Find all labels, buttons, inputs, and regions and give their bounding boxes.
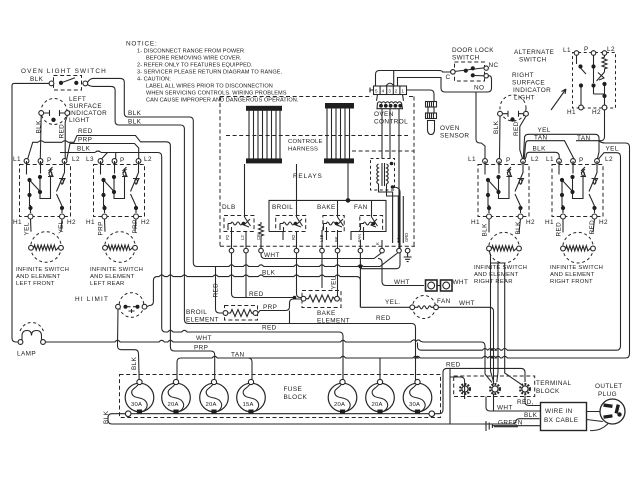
svg-text:HARNESS: HARNESS: [288, 147, 318, 153]
svg-text:WHT: WHT: [497, 405, 513, 412]
svg-text:BLOCK: BLOCK: [536, 388, 560, 395]
svg-text:L1: L1: [468, 156, 476, 163]
svg-text:BX CABLE: BX CABLE: [544, 417, 578, 424]
svg-text:BLK: BLK: [30, 76, 44, 83]
svg-text:YEL: YEL: [24, 222, 31, 235]
svg-text:P: P: [47, 157, 52, 164]
svg-text:P: P: [120, 157, 125, 164]
bus RED left (from L1 left-front across): [28, 136, 215, 383]
ribbon cable A: [246, 106, 282, 164]
svg-text:FUSE: FUSE: [284, 386, 303, 393]
svg-text:OUTLET: OUTLET: [595, 383, 623, 390]
svg-text:TAN: TAN: [231, 352, 245, 359]
svg-text:WIRE IN: WIRE IN: [545, 408, 573, 415]
svg-text:HI LIMIT: HI LIMIT: [75, 296, 109, 303]
svg-text:TERMINAL: TERMINAL: [536, 380, 572, 387]
svg-text:H1: H1: [545, 219, 554, 226]
svg-text:AND ELEMENT: AND ELEMENT: [474, 272, 519, 278]
svg-text:NC: NC: [489, 62, 499, 69]
svg-text:LAMP: LAMP: [17, 351, 36, 358]
svg-text:C: C: [446, 74, 451, 81]
relay FAN dashed box: [360, 216, 383, 232]
svg-text:BLOCK: BLOCK: [284, 394, 308, 401]
wires bake relay outputs down to element: [322, 253, 360, 307]
svg-text:K: K: [375, 242, 380, 245]
relay BAKE dashed box: [323, 216, 344, 232]
svg-text:FAN: FAN: [437, 298, 451, 305]
wire H2 to element right front, RED: [593, 219, 595, 232]
svg-text:4- CAUTION:: 4- CAUTION:: [137, 77, 171, 83]
oven light switch: [49, 76, 88, 91]
wire transformer right to yel junction: [360, 187, 400, 269]
svg-text:YEL: YEL: [606, 145, 619, 152]
relay coil resistor DLB: [259, 222, 264, 240]
svg-text:L2: L2: [240, 235, 245, 240]
control harness dashed box left edge: [220, 97, 415, 247]
svg-text:L2: L2: [72, 156, 80, 163]
svg-text:RED: RED: [78, 128, 93, 135]
wire RED fuse bus to terminal block: [435, 368, 525, 413]
wire BLK from indicator left terminal to P of left front switch: [39, 116, 42, 160]
wire door lock NO loop to oven control: [398, 76, 492, 92]
ground symbol green wire: [486, 421, 492, 431]
relay BROIL: [280, 164, 303, 232]
svg-text:WHT: WHT: [394, 279, 410, 286]
svg-text:L1: L1: [546, 156, 554, 163]
text RIGHT SURFACE INDICATOR LIGHT: [512, 72, 551, 102]
svg-text:5: 5: [375, 89, 378, 94]
element right rear: [487, 232, 522, 263]
svg-text:2: 2: [395, 89, 398, 94]
svg-text:H2: H2: [599, 219, 608, 226]
diagonal from L3 to BLK bus: [95, 151, 108, 160]
svg-text:LIGHT: LIGHT: [69, 117, 90, 124]
svg-text:PRP: PRP: [132, 219, 139, 233]
svg-text:P: P: [579, 157, 584, 164]
wire from junction up: [347, 164, 349, 201]
wire WHT fan to terminal block: [438, 307, 493, 411]
svg-text:INFINITE SWITCH: INFINITE SWITCH: [550, 265, 603, 271]
svg-text:YEL: YEL: [331, 276, 338, 289]
svg-text:BLK: BLK: [533, 145, 547, 152]
svg-text:DOOR LOCK: DOOR LOCK: [452, 47, 494, 54]
wire to right switches L1: [476, 92, 485, 159]
lamp: [18, 323, 45, 345]
svg-text:YEL: YEL: [58, 220, 65, 233]
wire WHT bus from lamp to terminal block: [45, 340, 485, 374]
relay module dashed top edge: [226, 97, 414, 247]
terminal block screw 2: [490, 384, 500, 394]
svg-text:YEL.: YEL.: [385, 299, 400, 306]
svg-text:CONTROLE: CONTROLE: [288, 139, 323, 145]
svg-text:P: P: [584, 46, 589, 53]
svg-text:H1: H1: [567, 109, 576, 116]
svg-text:P: P: [506, 157, 511, 164]
svg-text:BLK: BLK: [36, 120, 43, 134]
fuse 6 20A: [366, 379, 395, 414]
svg-text:RIGHT: RIGHT: [512, 72, 534, 79]
svg-text:PRP: PRP: [194, 345, 208, 352]
wire WHT to BX box: [486, 397, 540, 412]
svg-text:SWITCH: SWITCH: [519, 57, 547, 64]
element left rear: [103, 232, 138, 263]
svg-text:BLK: BLK: [128, 110, 142, 117]
infinite switch left rear: [94, 159, 145, 219]
svg-text:INFINITE SWITCH: INFINITE SWITCH: [16, 267, 69, 273]
wire H2 to element left front, YEL: [61, 219, 62, 232]
junction bake-red vertical: [289, 311, 291, 324]
svg-text:AND ELEMENT: AND ELEMENT: [16, 274, 61, 280]
wire RED screw3 to BX box: [525, 395, 540, 405]
svg-text:WHT: WHT: [196, 335, 212, 342]
svg-text:LABEL ALL WIRES PRIOR TO DISCO: LABEL ALL WIRES PRIOR TO DISCONNECTION: [146, 84, 273, 90]
svg-text:WHT: WHT: [459, 300, 475, 307]
svg-text:CAN CAUSE IMPROPER AND DANGERO: CAN CAUSE IMPROPER AND DANGEROUS OPERATI…: [146, 98, 299, 104]
wire BLK hi-limit left to fuse 1: [118, 309, 140, 381]
open circle right of fuse bus: [429, 411, 435, 417]
svg-text:L2: L2: [531, 156, 539, 163]
bus BLK left (to left-rear P and down at 161.7): [60, 153, 343, 383]
svg-text:BROIL: BROIL: [272, 204, 293, 211]
wires oven control plug down: [382, 109, 399, 249]
svg-text:OVEN LIGHT SWITCH: OVEN LIGHT SWITCH: [21, 68, 107, 75]
notice text block: [126, 41, 299, 104]
svg-text:30A: 30A: [131, 402, 142, 408]
wire oven control to door lock: [376, 71, 451, 87]
svg-text:RED: RED: [589, 220, 596, 235]
svg-text:NO: NO: [474, 85, 484, 92]
WHT receptacle box 2: [437, 280, 452, 291]
svg-text:PRP: PRP: [263, 304, 277, 311]
fuse 2 20A: [162, 379, 191, 414]
svg-text:BLK: BLK: [131, 356, 138, 370]
svg-text:30A: 30A: [409, 402, 420, 408]
svg-text:SURFACE: SURFACE: [69, 103, 102, 110]
fan motor: [410, 296, 439, 319]
svg-text:CB: CB: [256, 234, 261, 240]
svg-text:GRD: GRD: [404, 233, 409, 242]
infinite switch left front: [20, 159, 71, 219]
wire TAN outer right border: [177, 141, 630, 382]
element right front: [561, 232, 596, 263]
oven control connector strip: [370, 83, 407, 101]
wire bus 358 drop to fuse 6: [379, 358, 381, 382]
wire RED broil left from bus: [216, 267, 224, 314]
svg-text:RED: RED: [556, 222, 563, 237]
wires BX box to plug: [587, 412, 609, 431]
svg-text:15A: 15A: [243, 402, 254, 408]
svg-text:RIGHT REAR: RIGHT REAR: [474, 279, 513, 285]
svg-text:L3: L3: [86, 156, 94, 163]
svg-text:BLK: BLK: [524, 412, 538, 419]
svg-text:PRP: PRP: [78, 137, 92, 144]
svg-text:BLK: BLK: [77, 146, 91, 153]
wire H2 to element left rear, PRP: [135, 219, 136, 232]
svg-text:20A: 20A: [168, 402, 179, 408]
svg-text:BLK: BLK: [128, 119, 142, 126]
svg-text:BK: BK: [334, 236, 339, 242]
oven control plug connector: [377, 102, 403, 109]
relay BROIL dashed box: [276, 216, 306, 232]
wires transformer secondary down: [379, 184, 404, 243]
terminal block screw 1: [460, 384, 470, 394]
svg-text:1: 1: [401, 89, 404, 94]
svg-text:RIGHT FRONT: RIGHT FRONT: [550, 279, 593, 285]
svg-text:GREEN: GREEN: [498, 420, 523, 427]
svg-text:BLK: BLK: [493, 120, 500, 134]
svg-text:WHT: WHT: [453, 279, 469, 286]
svg-text:H2: H2: [526, 219, 535, 226]
outlet plug: [600, 399, 625, 424]
junction wire down from RED line: [449, 368, 451, 424]
svg-text:L2: L2: [607, 46, 615, 53]
relay DLB dashed box: [224, 216, 254, 232]
text infinite switch left rear: [90, 267, 143, 287]
svg-text:AND ELEMENT: AND ELEMENT: [550, 272, 595, 278]
wire TAN bus drop to fuse 4: [248, 358, 252, 382]
svg-text:20A: 20A: [372, 402, 383, 408]
svg-text:SWITCH: SWITCH: [452, 55, 480, 62]
terminal block dashed box: [454, 376, 535, 397]
svg-text:R2: R2: [291, 234, 296, 240]
svg-text:H2: H2: [592, 109, 601, 116]
fuse 1 30A: [125, 379, 154, 414]
wire WHT from relay out to oven control: [261, 253, 424, 286]
transformer: [377, 162, 395, 189]
svg-text:BROIL: BROIL: [186, 309, 207, 316]
relay output terminals row: [232, 230, 383, 248]
svg-text:LEFT FRONT: LEFT FRONT: [16, 281, 55, 287]
svg-text:LEFT REAR: LEFT REAR: [90, 281, 125, 287]
junction dot on relay box top: [346, 198, 351, 203]
wire H2 to element right rear, BLK: [519, 219, 521, 232]
right surface indicator light: [498, 95, 529, 122]
bus PRP left (to L2 left-rear): [67, 144, 139, 160]
svg-text:L1: L1: [396, 237, 401, 242]
text infinite switch right front: [550, 265, 603, 285]
alternate switch internals: [574, 51, 607, 110]
wire relay out 246 down: [245, 253, 247, 298]
text infinite switch right rear: [474, 265, 527, 285]
svg-text:20A: 20A: [206, 402, 217, 408]
svg-text:INDICATOR: INDICATOR: [513, 87, 551, 94]
relay FAN: [361, 201, 378, 241]
wire YEL to fan: [360, 306, 410, 308]
svg-text:RELAYS: RELAYS: [293, 173, 323, 180]
svg-text:BEFORE REMOVING WIRE COVER.: BEFORE REMOVING WIRE COVER.: [146, 56, 242, 62]
svg-text:H1: H1: [471, 219, 480, 226]
wire PRP broil right to bake: [258, 299, 301, 313]
left surface indicator light: [39, 99, 70, 125]
svg-text:ELEMENT: ELEMENT: [186, 317, 219, 324]
svg-text:L2: L2: [605, 156, 613, 163]
svg-text:3: 3: [388, 89, 391, 94]
svg-text:20A: 20A: [334, 402, 345, 408]
arrow to alternate switch: [551, 89, 566, 110]
svg-text:H1: H1: [86, 219, 95, 226]
svg-text:RED: RED: [376, 315, 391, 322]
ground symbol oven control: [404, 253, 412, 262]
svg-text:NOTICE:: NOTICE:: [126, 41, 158, 48]
svg-text:2- REFER ONLY TO FEATURES EQUI: 2- REFER ONLY TO FEATURES EQUIPPED.: [137, 63, 253, 69]
wire RED dlb relay down to bake: [232, 253, 297, 298]
wire GREEN to BX box: [492, 425, 540, 427]
wire BLK A from oven light switch to control area: [88, 78, 398, 266]
fuse 4 15A: [237, 379, 266, 414]
wire RED right indicator kinked down: [520, 116, 526, 159]
svg-text:RED: RED: [262, 325, 277, 332]
wires from right area into terminal block: [489, 250, 494, 382]
svg-text:FAN: FAN: [354, 204, 368, 211]
svg-text:H2: H2: [141, 219, 150, 226]
svg-text:DLB: DLB: [222, 204, 236, 211]
bake element: [301, 291, 341, 308]
fuse 7 30A: [403, 379, 432, 414]
svg-text:SENSOR: SENSOR: [440, 133, 469, 140]
svg-text:P2: P2: [225, 234, 230, 240]
svg-text:OVEN: OVEN: [374, 111, 394, 118]
ribbon cable B: [324, 103, 354, 163]
transformer dashed box: [371, 159, 395, 191]
fuse 3 20A: [200, 379, 229, 414]
svg-text:INFINITE SWITCH: INFINITE SWITCH: [90, 267, 143, 273]
svg-text:OVEN: OVEN: [440, 125, 460, 132]
svg-text:BAKE: BAKE: [317, 310, 336, 317]
wire oven control to sensor: [407, 90, 435, 102]
oven sensor connector: [426, 102, 437, 119]
fuse block dashed box: [120, 375, 441, 418]
relay DLB: [228, 164, 251, 240]
svg-text:INDICATOR: INDICATOR: [69, 110, 107, 117]
svg-text:1- DISCONNECT RANGE FROM POWER: 1- DISCONNECT RANGE FROM POWER: [137, 49, 244, 55]
svg-text:BLK: BLK: [482, 223, 489, 237]
wire RED from indicator right terminal to L2 of left front switch: [65, 116, 67, 160]
svg-text:AND ELEMENT: AND ELEMENT: [90, 274, 135, 280]
wire BLK B from oven light switch down-right: [88, 85, 416, 382]
infinite switch right front: [552, 159, 603, 219]
svg-text:RED: RED: [249, 291, 264, 298]
svg-text:FAN: FAN: [357, 234, 362, 242]
svg-text:ELEMENT: ELEMENT: [317, 318, 350, 325]
svg-text:PLUG: PLUG: [598, 391, 617, 398]
svg-text:YEL: YEL: [538, 127, 551, 134]
svg-text:RED,: RED,: [517, 399, 534, 406]
hi limit: [116, 293, 147, 318]
junction dot yel fan riser: [359, 265, 363, 269]
svg-text:L1: L1: [13, 156, 21, 163]
left surface indicator light label: [69, 96, 107, 124]
svg-text:BLK: BLK: [103, 410, 110, 424]
wire H1 to element right front, RED: [562, 219, 564, 232]
relay BAKE: [324, 201, 344, 241]
element left front: [29, 232, 64, 263]
infinite switch right rear: [478, 159, 529, 219]
text infinite switch left front: [16, 267, 69, 287]
svg-text:4: 4: [382, 89, 385, 94]
svg-text:LIGHT: LIGHT: [514, 95, 535, 102]
svg-text:INFINITE SWITCH: INFINITE SWITCH: [474, 265, 527, 271]
wire H1 to element left front, YEL: [30, 219, 33, 232]
wire broil relay down to bake left: [297, 253, 302, 298]
svg-text:BAKE: BAKE: [317, 204, 336, 211]
door lock switch: [446, 62, 499, 92]
svg-text:CONTROL: CONTROL: [374, 119, 408, 126]
wire H1 to element right rear, BLK: [488, 219, 490, 232]
broil element: [223, 306, 258, 321]
wire BLK fuse bus to bottom line: [108, 414, 540, 424]
svg-text:RED: RED: [59, 124, 66, 139]
svg-text:PRP: PRP: [98, 221, 105, 235]
svg-text:L2: L2: [144, 156, 152, 163]
wire hi-limit right up to BLK bus: [147, 275, 361, 307]
wire H1 to element left rear, PRP: [104, 219, 107, 232]
svg-text:SURFACE: SURFACE: [512, 80, 545, 87]
svg-text:H2: H2: [67, 219, 76, 226]
hops on RED bus over BLK and RED verticals: [38, 141, 68, 143]
svg-text:WHT: WHT: [264, 252, 280, 259]
svg-text:RED: RED: [446, 362, 461, 369]
svg-text:WHEN SERVICING CONTROLS. WIRIN: WHEN SERVICING CONTROLS. WIRING PROBLEMS: [146, 91, 287, 97]
svg-text:BLK: BLK: [515, 221, 522, 235]
svg-text:H1: H1: [13, 219, 22, 226]
oven sensor bulb: [428, 121, 435, 135]
svg-text:LEFT: LEFT: [69, 96, 86, 103]
alternate switch box: [573, 53, 616, 109]
wire from left edge to oven light switch: [12, 83, 51, 342]
fuse bottom bus: [131, 413, 429, 415]
open circle left of fuse bus: [125, 411, 131, 417]
svg-text:L1: L1: [563, 47, 571, 54]
terminal block screw 3: [520, 384, 530, 394]
svg-text:ALTERNATE: ALTERNATE: [514, 49, 554, 56]
WIRE IN BX CABLE box: [541, 403, 587, 431]
wire BLK right indicator to L1-P: [499, 116, 502, 159]
svg-text:RED: RED: [513, 121, 520, 136]
svg-text:BLK: BLK: [262, 270, 276, 277]
relay module solid box: [269, 200, 386, 240]
fuse 5 20A: [328, 379, 357, 414]
svg-text:3- SERVICER PLEASE RETURN DIAG: 3- SERVICER PLEASE RETURN DIAGRAM TO RAN…: [137, 70, 283, 76]
WHT receptacle box 1: [426, 280, 438, 291]
